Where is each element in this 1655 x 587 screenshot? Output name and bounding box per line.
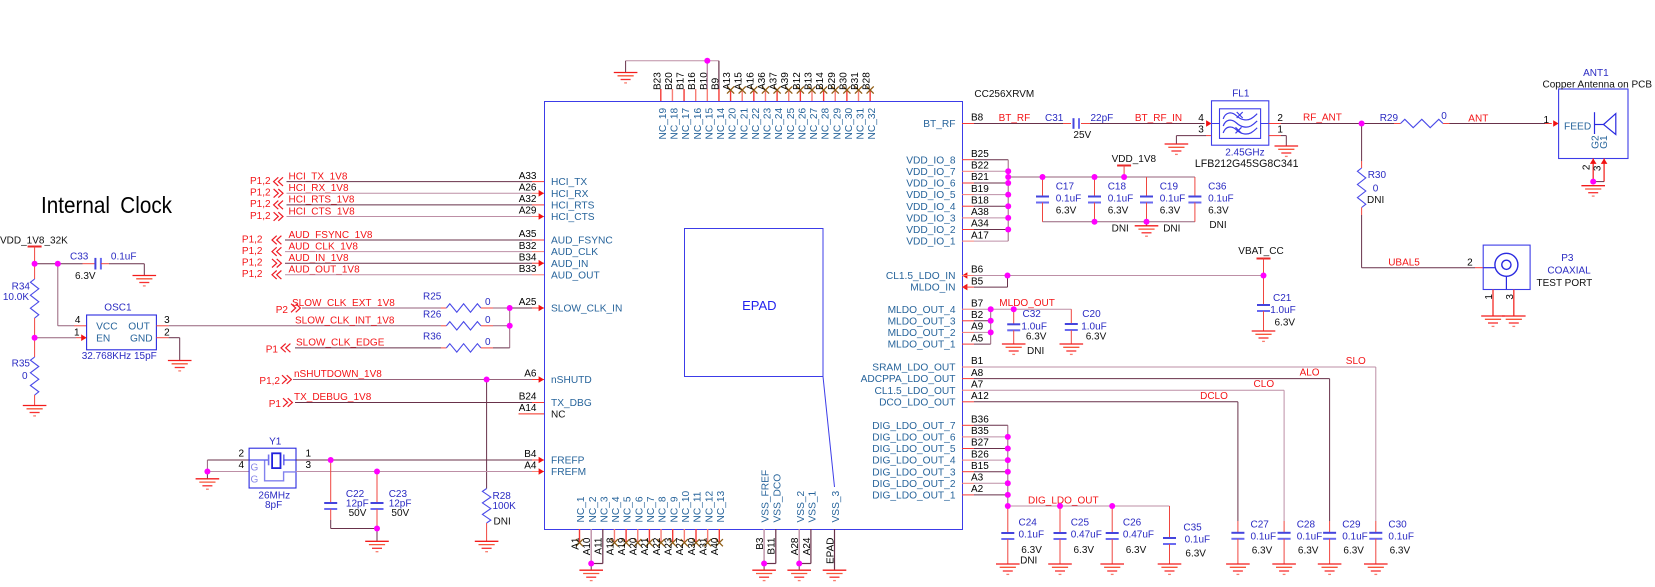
node junction VDD_IO rail — [1005, 174, 1011, 180]
svg-text:Copper Antenna on PCB: Copper Antenna on PCB — [1543, 80, 1653, 91]
wire MLDO bus — [990, 309, 992, 344]
wire ANT1 ground — [1593, 181, 1604, 183]
node junction C25 — [1057, 503, 1063, 509]
svg-text:ANT1: ANT1 — [1583, 68, 1609, 79]
IC U1 CC256XRVM outline — [545, 102, 963, 530]
node junction — [1121, 174, 1127, 180]
ground VSS_2 VSS_1 — [787, 570, 811, 580]
svg-text:NC_11: NC_11 — [693, 491, 704, 522]
svg-text:2: 2 — [1582, 164, 1593, 170]
svg-text:B27: B27 — [971, 438, 989, 449]
svg-text:B28: B28 — [862, 72, 873, 90]
node junction R26 output — [507, 323, 513, 329]
svg-text:P1,2: P1,2 — [250, 188, 271, 199]
svg-text:NC_25: NC_25 — [786, 107, 797, 139]
svg-text:P1,2: P1,2 — [250, 176, 271, 187]
svg-text:VBAT_CC: VBAT_CC — [1238, 246, 1283, 257]
wire AUD_CLK_1V8 to pin B32 — [285, 251, 532, 253]
svg-text:C25: C25 — [1071, 518, 1090, 529]
wire Y1 pin3 to FREFM — [296, 471, 377, 473]
ground C22 C23 — [365, 541, 389, 551]
svg-text:A13: A13 — [722, 72, 733, 90]
node junction VDD_IO bus — [1005, 180, 1011, 186]
node junction RF_ANT/R30 — [1359, 121, 1365, 127]
svg-text:6.3V: 6.3V — [1026, 332, 1047, 343]
svg-text:DIG_LDO_OUT_4: DIG_LDO_OUT_4 — [872, 456, 956, 467]
node junction MLDO bus — [988, 318, 994, 324]
svg-text:C17: C17 — [1056, 182, 1075, 193]
svg-text:B4: B4 — [524, 449, 537, 460]
pin 3 ANT1 stub — [1603, 159, 1605, 182]
wire MLDO_OUT_4 — [962, 308, 974, 310]
svg-text:MLDO_OUT_2: MLDO_OUT_2 — [888, 328, 956, 339]
wire SLO vertical — [1375, 367, 1377, 521]
svg-text:UBAL5: UBAL5 — [1388, 258, 1420, 269]
svg-text:0: 0 — [485, 297, 491, 308]
svg-text:DIG_LDO_OUT_7: DIG_LDO_OUT_7 — [872, 421, 956, 432]
wire HCI_TX_1V8 to pin A33 — [287, 181, 533, 183]
svg-text:P1,2: P1,2 — [242, 246, 263, 257]
wire MLDO_OUT to C32 C20 — [991, 308, 1072, 310]
svg-text:VSS_2: VSS_2 — [796, 490, 807, 522]
svg-text:VDD_IO_8: VDD_IO_8 — [906, 155, 956, 166]
EPAD box — [685, 229, 824, 377]
capacitor C31 — [1063, 123, 1071, 125]
ground top NC pins — [614, 73, 638, 83]
svg-text:NC_9: NC_9 — [669, 496, 680, 522]
svg-text:0: 0 — [1373, 184, 1379, 195]
pin 2 ANT1 stub — [1592, 159, 1594, 182]
ground C26 — [1100, 564, 1124, 574]
svg-text:A27: A27 — [675, 537, 686, 555]
svg-text:B16: B16 — [687, 72, 698, 90]
node junction C18 bottom — [1092, 219, 1098, 225]
svg-text:0.47uF: 0.47uF — [1071, 529, 1102, 540]
svg-text:R36: R36 — [423, 331, 442, 342]
wire AUD_OUT_1V8 to pin B33 — [285, 274, 532, 276]
svg-text:B23: B23 — [652, 72, 663, 90]
svg-text:B14: B14 — [815, 72, 826, 90]
wire BT_RF_IN to FL1 — [1090, 123, 1205, 125]
svg-text:GND: GND — [130, 334, 153, 345]
svg-text:A28: A28 — [790, 537, 801, 555]
svg-text:SLOW_CLK_IN: SLOW_CLK_IN — [551, 304, 622, 315]
svg-text:CL1.5_LDO_OUT: CL1.5_LDO_OUT — [875, 386, 956, 397]
svg-text:COAXIAL: COAXIAL — [1547, 266, 1591, 277]
svg-text:32.768KHz 15pF: 32.768KHz 15pF — [82, 351, 157, 362]
svg-text:C19: C19 — [1160, 182, 1179, 193]
svg-text:B20: B20 — [664, 72, 675, 90]
pin B31 (NC_31) top stub — [858, 89, 860, 101]
svg-text:50V: 50V — [349, 508, 367, 519]
svg-text:C18: C18 — [1108, 182, 1127, 193]
capacitor C23 — [376, 472, 378, 504]
svg-text:FREFM: FREFM — [551, 467, 586, 478]
svg-text:VDD_IO_7: VDD_IO_7 — [906, 167, 956, 178]
ground C25 — [1048, 564, 1072, 574]
crystal Y1 — [249, 448, 296, 488]
svg-text:P1: P1 — [266, 344, 279, 355]
svg-text:B24: B24 — [519, 392, 537, 403]
node junction VDD_IO bus — [1005, 203, 1011, 209]
wire FL1 pin3 to ground — [1206, 135, 1212, 137]
pin EPAD (VSS_3) — [834, 529, 836, 570]
wire VDD_IO bus — [1007, 160, 1009, 241]
node junction MLDO_IN — [1005, 273, 1011, 279]
svg-text:C33: C33 — [70, 252, 89, 263]
wire ANT to ANT1 — [1450, 123, 1546, 125]
pin A13 (NC_20) top stub — [730, 89, 732, 101]
pin A28 (VSS_2) — [798, 529, 800, 564]
wire DIG_LDO_OUT_3 — [962, 471, 974, 473]
svg-text:B35: B35 — [971, 426, 989, 437]
wire CL1.5_LDO_IN to VBAT_CC — [962, 275, 974, 277]
node junction nSHUTDOWN/R28 — [484, 377, 490, 383]
svg-text:A12: A12 — [971, 391, 989, 402]
svg-text:TEST PORT: TEST PORT — [1537, 278, 1593, 289]
ground R35 — [23, 406, 47, 416]
svg-text:OSC1: OSC1 — [104, 303, 132, 314]
svg-text:NC_5: NC_5 — [623, 496, 634, 522]
svg-text:R34: R34 — [12, 282, 31, 293]
ground C21 — [1252, 331, 1276, 341]
wire SLOW_CLK bus vertical — [509, 308, 511, 348]
svg-text:CL1.5_LDO_IN: CL1.5_LDO_IN — [886, 271, 956, 282]
svg-text:B34: B34 — [519, 252, 537, 263]
svg-text:ADCPPA_LDO_OUT: ADCPPA_LDO_OUT — [861, 374, 956, 385]
svg-text:B6: B6 — [971, 265, 984, 276]
svg-text:NC_20: NC_20 — [728, 107, 739, 139]
svg-text:B19: B19 — [971, 184, 989, 195]
wire DIG_LDO_OUT_1 — [962, 494, 974, 496]
wire VDD_IO_2 — [962, 229, 974, 231]
svg-text:NC_12: NC_12 — [704, 490, 715, 522]
svg-text:6.3V: 6.3V — [1185, 549, 1206, 560]
svg-text:VSS_FREF: VSS_FREF — [761, 470, 772, 523]
svg-text:6.3V: 6.3V — [75, 271, 96, 282]
capacitor C36 — [1194, 177, 1196, 197]
capacitor C20 — [1070, 309, 1072, 324]
svg-text:A2: A2 — [971, 484, 984, 495]
svg-text:P3: P3 — [1561, 253, 1574, 264]
node junction MLDO bus — [988, 329, 994, 335]
capacitor C29 — [1329, 521, 1331, 533]
svg-text:0.1uF: 0.1uF — [1388, 532, 1414, 543]
svg-text:NC_24: NC_24 — [774, 107, 785, 139]
node junction VDD/R34 — [32, 261, 38, 267]
svg-text:6.3V: 6.3V — [1298, 546, 1319, 557]
pin B16 (NC_16) top stub — [695, 89, 697, 101]
pin B3 (VSS_FREF) — [763, 529, 765, 564]
node junction VSS_2/VSS_1 — [796, 561, 802, 567]
svg-text:1: 1 — [1484, 294, 1495, 300]
wire MLDO_OUT_3 — [962, 320, 974, 322]
svg-text:B7: B7 — [971, 298, 984, 309]
capacitor C33 — [94, 258, 96, 270]
svg-text:0.1uF: 0.1uF — [1342, 532, 1368, 543]
wire EPAD diagonal to VSS_3 — [823, 377, 835, 488]
svg-text:B29: B29 — [827, 72, 838, 90]
svg-text:1: 1 — [74, 327, 80, 338]
svg-text:1: 1 — [1277, 125, 1283, 136]
pin B17 (NC_17) top stub — [683, 89, 685, 101]
svg-text:B22: B22 — [971, 161, 989, 172]
wire DIG_LDO_OUT_2 — [962, 482, 974, 484]
svg-text:2: 2 — [238, 449, 244, 460]
svg-text:MLDO_OUT_3: MLDO_OUT_3 — [888, 316, 956, 327]
svg-text:A1: A1 — [570, 537, 581, 550]
wire HCI_RX_1V8 to pin A26 — [287, 192, 533, 194]
svg-text:FEED: FEED — [1564, 122, 1591, 133]
wire MLDO_OUT_2 — [962, 331, 974, 333]
wire DCLO net — [962, 401, 974, 403]
node junction VBAT_CC/C21 — [1261, 273, 1267, 279]
svg-text:0: 0 — [485, 337, 491, 348]
svg-text:VDD_IO_6: VDD_IO_6 — [906, 179, 956, 190]
svg-text:DNI: DNI — [1112, 224, 1129, 235]
svg-text:AUD_FSYNC_1V8: AUD_FSYNC_1V8 — [289, 230, 373, 241]
node junction C22 — [328, 457, 334, 463]
svg-text:A38: A38 — [971, 207, 989, 218]
svg-text:C29: C29 — [1342, 520, 1361, 531]
svg-text:DNI: DNI — [1367, 195, 1384, 206]
wire UBAL5 — [1361, 215, 1363, 268]
wire cap rail bottom — [1043, 221, 1195, 223]
svg-text:R26: R26 — [423, 309, 442, 320]
svg-text:nSHUTD: nSHUTD — [551, 375, 592, 386]
capacitor C25 — [1059, 506, 1061, 533]
svg-text:6.3V: 6.3V — [1056, 205, 1077, 216]
svg-text:DNI: DNI — [1020, 556, 1037, 567]
capacitor C17 — [1042, 177, 1044, 197]
wire junction to pin A25 — [510, 307, 532, 309]
node junction DIG bus — [1005, 446, 1011, 452]
pin A37 (NC_24) top stub — [776, 89, 778, 101]
svg-text:2: 2 — [164, 327, 170, 338]
svg-text:3: 3 — [306, 460, 312, 471]
svg-text:C21: C21 — [1273, 293, 1292, 304]
pin B14 (NC_28) top stub — [823, 89, 825, 101]
pin B12 (NC_26) top stub — [799, 89, 801, 101]
node junction VDD_IO bus — [1005, 215, 1011, 221]
svg-text:C32: C32 — [1023, 309, 1042, 320]
svg-text:NC_23: NC_23 — [763, 107, 774, 139]
svg-text:4: 4 — [238, 460, 244, 471]
svg-text:4: 4 — [75, 315, 81, 326]
svg-text:6.3V: 6.3V — [1208, 205, 1229, 216]
svg-text:CC256XRVM: CC256XRVM — [974, 89, 1034, 100]
svg-text:NC_2: NC_2 — [588, 496, 599, 522]
pin A22 (NC_8) bottom stub — [660, 529, 662, 543]
svg-text:MLDO_OUT_4: MLDO_OUT_4 — [888, 305, 956, 316]
svg-text:6.3V: 6.3V — [1108, 205, 1129, 216]
svg-text:DNI: DNI — [494, 517, 511, 528]
svg-text:B15: B15 — [971, 461, 989, 472]
resistor R35 — [34, 338, 36, 357]
svg-text:DCO_LDO_OUT: DCO_LDO_OUT — [879, 397, 955, 408]
svg-text:NC_29: NC_29 — [832, 107, 843, 139]
pin B11 (VSS_DCO) — [775, 529, 777, 564]
svg-text:Y1: Y1 — [269, 437, 282, 448]
svg-text:P1,2: P1,2 — [242, 258, 263, 269]
svg-text:A26: A26 — [519, 183, 537, 194]
capacitor C26 — [1111, 506, 1113, 533]
wire CLO vertical — [1283, 390, 1285, 521]
svg-text:B36: B36 — [971, 415, 989, 426]
svg-text:ALO: ALO — [1300, 368, 1320, 379]
wire ALO vertical — [1329, 379, 1331, 521]
wire nSHUTDOWN to pin A6 — [293, 379, 532, 381]
svg-text:B8: B8 — [971, 113, 984, 124]
svg-text:DIG_LDO_OUT_2: DIG_LDO_OUT_2 — [872, 479, 956, 490]
svg-text:MLDO_OUT_1: MLDO_OUT_1 — [888, 340, 956, 351]
svg-text:6.3V: 6.3V — [1252, 546, 1273, 557]
ground C32 — [1002, 344, 1026, 354]
resistor R34 — [34, 264, 36, 279]
svg-text:VDD_1V8: VDD_1V8 — [1112, 154, 1157, 165]
wire VDD_IO_4 — [962, 205, 974, 207]
svg-text:VDD_IO_3: VDD_IO_3 — [906, 214, 956, 225]
svg-text:A29: A29 — [519, 206, 537, 217]
wire VDD_IO cap rail top — [1008, 176, 1195, 178]
wire VDD junction to OSC1 VCC — [57, 264, 59, 326]
svg-text:BT_RF: BT_RF — [999, 113, 1031, 124]
svg-text:AUD_CLK_1V8: AUD_CLK_1V8 — [289, 241, 359, 252]
svg-text:EPAD: EPAD — [825, 538, 836, 565]
wire OSC1 GND to ground — [156, 337, 168, 339]
svg-text:DNI: DNI — [1027, 346, 1044, 357]
svg-text:4: 4 — [1198, 113, 1204, 124]
ground C20 — [1060, 344, 1084, 354]
svg-text:NC_10: NC_10 — [681, 490, 692, 522]
node junction DIG bus — [1005, 492, 1011, 498]
wire CLO net — [962, 389, 974, 391]
svg-text:0.1uF: 0.1uF — [1108, 194, 1134, 205]
svg-text:A24: A24 — [802, 537, 813, 555]
svg-text:AUD_IN_1V8: AUD_IN_1V8 — [289, 253, 349, 264]
svg-text:6.3V: 6.3V — [1160, 205, 1181, 216]
pin B9 (NC_14) top stub — [718, 89, 720, 101]
svg-text:NC_26: NC_26 — [797, 107, 808, 139]
ground C33 — [133, 276, 157, 286]
svg-text:B26: B26 — [971, 449, 989, 460]
svg-text:1: 1 — [1544, 115, 1550, 126]
svg-text:A20: A20 — [629, 537, 640, 555]
node junction DIG bus — [1005, 480, 1011, 486]
wire nSHUTDOWN to R28 — [486, 380, 488, 489]
ground C30 — [1364, 564, 1388, 574]
wire Y1 pin1 to FREFP — [296, 459, 331, 461]
svg-text:NC_27: NC_27 — [809, 107, 820, 139]
capacitor C27 — [1237, 521, 1239, 533]
svg-text:B25: B25 — [971, 149, 989, 160]
svg-text:P1,2: P1,2 — [242, 269, 263, 280]
wire VDD_IO_7 — [962, 170, 974, 172]
svg-text:B11: B11 — [767, 537, 778, 554]
ground FL1 pin1 — [1275, 146, 1299, 156]
svg-text:C28: C28 — [1297, 520, 1316, 531]
ground P3 — [1481, 316, 1505, 326]
pin A14 no-connect stub — [519, 413, 545, 415]
svg-text:100K: 100K — [493, 501, 517, 512]
svg-text:AUD_FSYNC: AUD_FSYNC — [551, 236, 613, 247]
wire DIG_LDO rail — [1008, 505, 1170, 507]
svg-text:A36: A36 — [757, 72, 768, 90]
svg-text:R30: R30 — [1368, 170, 1387, 181]
svg-text:NC: NC — [551, 410, 565, 421]
ground C27 — [1226, 564, 1250, 574]
pin A21 (NC_7) bottom stub — [648, 529, 650, 543]
svg-text:HCI_RTS: HCI_RTS — [551, 201, 595, 212]
node junction Y1 ground — [204, 469, 210, 475]
resistor R25 — [441, 307, 446, 309]
node junction C17 rail — [1040, 174, 1046, 180]
oscillator OSC1 — [87, 315, 157, 350]
svg-text:A34: A34 — [971, 219, 989, 230]
svg-text:NC_16: NC_16 — [693, 107, 704, 139]
svg-text:HCI_CTS: HCI_CTS — [551, 212, 595, 223]
wire A10 (NC_2) to ground — [590, 529, 592, 564]
svg-text:HCI_RX_1V8: HCI_RX_1V8 — [289, 183, 349, 194]
svg-text:DIG_LDO_OUT_3: DIG_LDO_OUT_3 — [872, 467, 956, 478]
svg-text:VSS_DCO: VSS_DCO — [772, 474, 783, 523]
wire ALO net — [962, 378, 974, 380]
svg-text:A25: A25 — [519, 297, 537, 308]
svg-text:EPAD: EPAD — [742, 298, 776, 313]
svg-text:RF_ANT: RF_ANT — [1303, 113, 1342, 124]
pin A19 (NC_5) bottom stub — [625, 529, 627, 543]
node junction C32 — [1011, 306, 1017, 312]
pin A15 (NC_21) top stub — [741, 89, 743, 101]
capacitor C22 — [330, 460, 332, 503]
wire top NC ground net — [626, 60, 719, 62]
svg-text:2: 2 — [1467, 258, 1473, 269]
svg-text:B21: B21 — [971, 172, 989, 183]
capacitor C19 — [1146, 177, 1148, 197]
svg-text:C31: C31 — [1045, 113, 1064, 124]
ground C29 — [1318, 564, 1342, 574]
wire SLO net — [962, 366, 974, 368]
svg-text:B10: B10 — [699, 72, 710, 90]
wire VDD_IO_6 — [962, 182, 974, 184]
coax symbol — [1495, 253, 1518, 276]
svg-text:BT_RF_IN: BT_RF_IN — [1135, 113, 1182, 124]
pin B10 (NC_15) top stub — [706, 89, 708, 101]
wire DIG_LDO_OUT_5 — [962, 448, 974, 450]
svg-text:DIG_LDO_OUT_6: DIG_LDO_OUT_6 — [872, 433, 956, 444]
svg-text:DIG_LDO_OUT_1: DIG_LDO_OUT_1 — [872, 491, 956, 502]
svg-text:NC_30: NC_30 — [844, 107, 855, 139]
svg-text:B9: B9 — [710, 77, 721, 90]
wire A11 (NC_3) to ground — [602, 529, 604, 564]
svg-text:A6: A6 — [524, 369, 537, 380]
wire HCI_RTS_1V8 to pin A32 — [287, 204, 533, 206]
svg-text:TX_DEBUG_1V8: TX_DEBUG_1V8 — [294, 392, 372, 403]
pin A31 (NC_12) bottom stub — [707, 529, 709, 543]
svg-text:BT_RF: BT_RF — [923, 119, 955, 130]
svg-text:A7: A7 — [971, 379, 984, 390]
svg-text:G: G — [251, 475, 259, 486]
svg-text:A40: A40 — [710, 537, 721, 555]
pin B20 (NC_18) top stub — [671, 89, 673, 101]
ground VSS_FREF VSS_DCO — [752, 570, 776, 580]
svg-text:NC_17: NC_17 — [681, 107, 692, 139]
svg-text:HCI_TX: HCI_TX — [551, 177, 587, 188]
node junction MLDO bus — [988, 306, 994, 312]
svg-text:3: 3 — [164, 315, 170, 326]
wire MLDO_OUT_1 — [962, 343, 974, 345]
pin 3 P3 stub — [1513, 290, 1515, 317]
